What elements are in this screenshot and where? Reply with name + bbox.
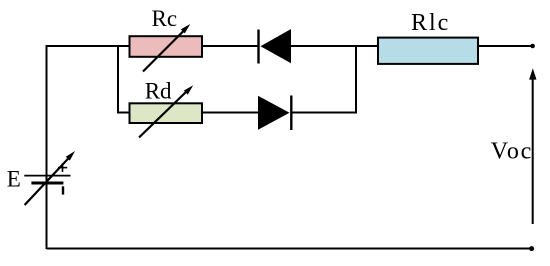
svg-text:Voc: Voc bbox=[491, 138, 533, 164]
svg-text:Rd: Rd bbox=[145, 79, 172, 104]
svg-text:E: E bbox=[7, 166, 21, 191]
svg-text:Rlc: Rlc bbox=[411, 10, 450, 36]
svg-text:Rc: Rc bbox=[152, 6, 178, 31]
